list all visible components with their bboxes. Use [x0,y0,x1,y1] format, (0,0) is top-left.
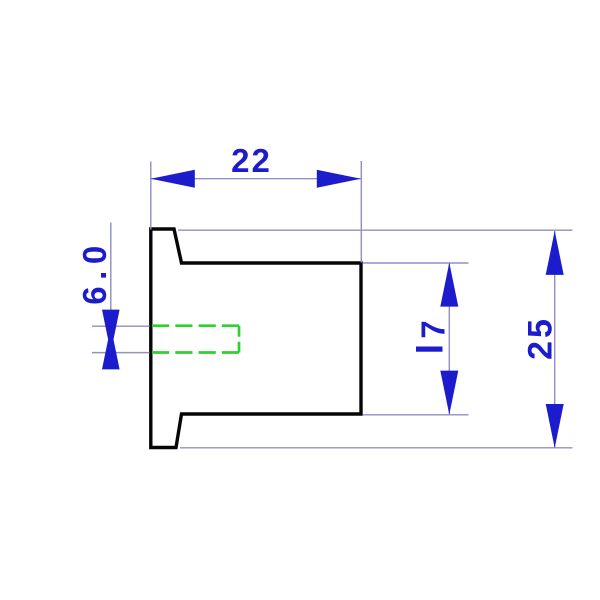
arrow up of dim 6.0 (overlapping bowtie) [102,326,120,369]
arrow right of dim 22 [317,170,361,188]
arrow bottom of dim 25 [546,404,564,448]
hidden hole (green dashed) bottom line [152,351,239,354]
extension line bottom of dim 6.0 [92,352,150,354]
svg-text:22: 22 [231,142,272,179]
dimension line 17 [448,263,450,414]
part outline (cap cross-section) [151,229,361,448]
dimension line 22 [152,178,361,180]
extension line bottom of dim 17 [363,414,469,416]
hidden hole (green dashed) right line [238,326,241,353]
label 17 digit 1 (plain bar) [416,347,443,352]
hidden hole (green dashed) top line [152,324,239,327]
arrow down of dim 6.0 (overlapping bowtie) [102,310,120,353]
arrow bottom of dim 17 [440,371,458,415]
arrow top of dim 25 [546,231,564,275]
svg-text:25: 25 [522,316,560,360]
arrow left of dim 22 [151,170,195,188]
svg-text:7: 7 [415,320,452,338]
svg-text:6.0: 6.0 [76,239,113,304]
dimension line 25 [554,231,556,448]
extension line top of dim 17 [363,262,469,264]
extension line left of dim 22 [150,162,152,230]
dimension line 6.0 [110,223,112,341]
extension line top of dim 25 [178,229,573,231]
extension line right of dim 22 [360,161,362,263]
extension line top of dim 6.0 [92,325,150,327]
extension line bottom of dim 25 [180,447,573,449]
arrow top of dim 17 [440,263,458,307]
